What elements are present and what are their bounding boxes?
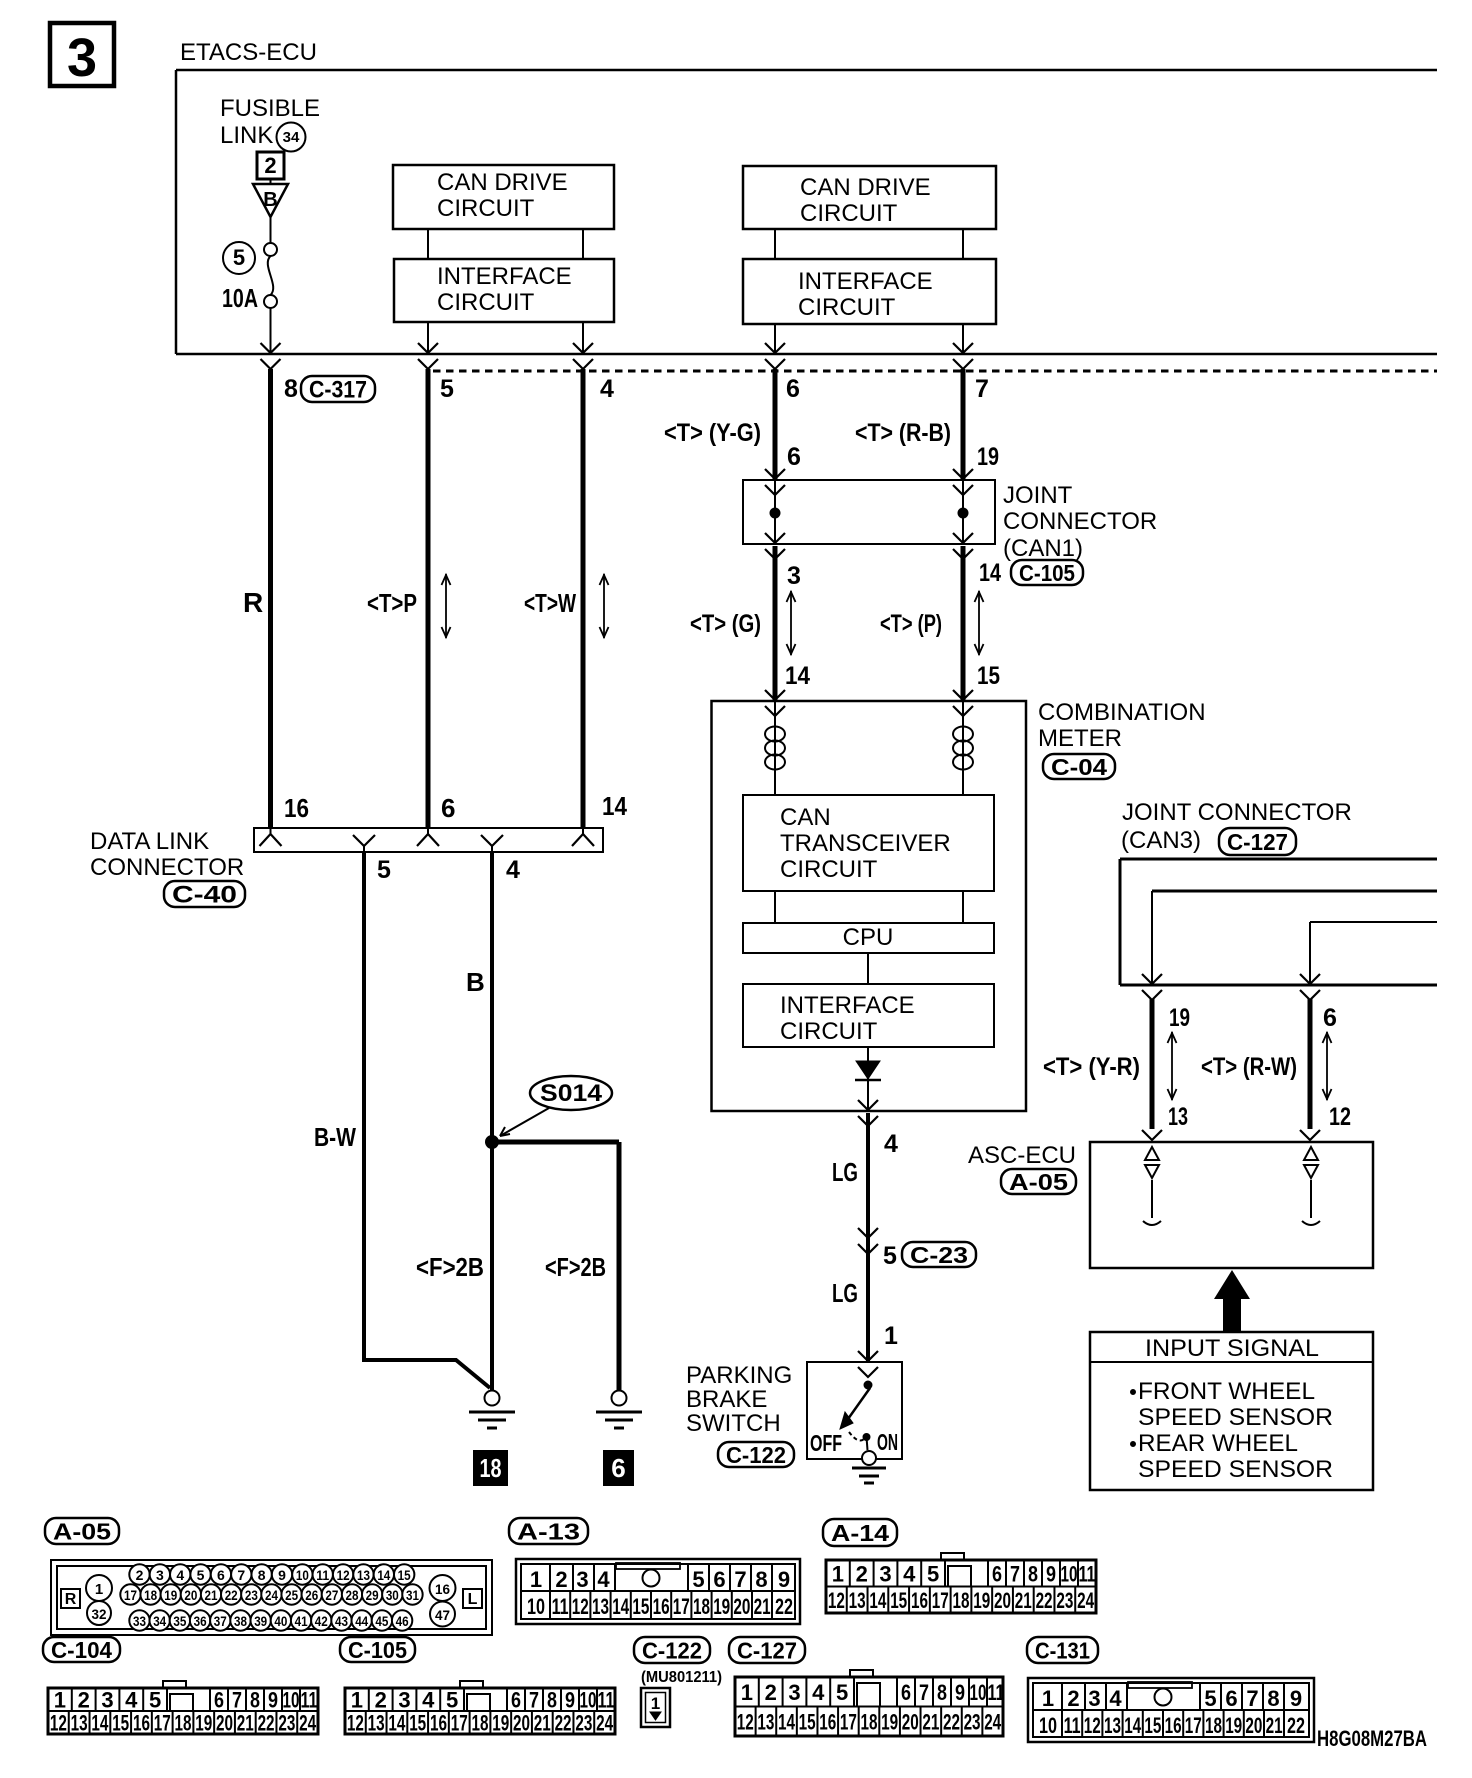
svg-text:23: 23 (575, 1711, 592, 1736)
svg-text:14: 14 (778, 1709, 796, 1734)
svg-text:9: 9 (1290, 1686, 1302, 1711)
svg-text:14: 14 (869, 1588, 887, 1613)
svg-text:20: 20 (994, 1588, 1011, 1613)
svg-text:18: 18 (144, 1587, 157, 1603)
svg-text:(CAN3): (CAN3) (1121, 827, 1201, 854)
svg-text:JOINT CONNECTOR: JOINT CONNECTOR (1122, 799, 1352, 826)
svg-text:TRANSCEIVER: TRANSCEIVER (780, 830, 951, 857)
svg-text:7: 7 (237, 1567, 245, 1583)
svg-text:15: 15 (1144, 1713, 1161, 1738)
svg-text:11: 11 (598, 1688, 615, 1713)
svg-text:CPU: CPU (843, 924, 894, 951)
svg-text:22: 22 (555, 1711, 572, 1736)
svg-text:14: 14 (612, 1594, 630, 1619)
svg-text:20: 20 (513, 1711, 530, 1736)
svg-text:3: 3 (787, 562, 801, 590)
svg-text:17: 17 (124, 1587, 137, 1603)
svg-text:20: 20 (216, 1711, 233, 1736)
svg-text:13: 13 (1104, 1713, 1121, 1738)
svg-text:11: 11 (552, 1594, 569, 1619)
svg-text:5: 5 (197, 1567, 205, 1583)
svg-text:CAN: CAN (780, 804, 831, 831)
svg-text:18: 18 (480, 1453, 502, 1483)
svg-text:23: 23 (1056, 1588, 1073, 1613)
svg-text:C-104: C-104 (51, 1637, 112, 1663)
svg-text:7: 7 (1246, 1686, 1258, 1711)
svg-text:7: 7 (1010, 1561, 1020, 1586)
svg-text:14: 14 (602, 791, 627, 821)
svg-text:20: 20 (733, 1594, 750, 1619)
svg-text:21: 21 (754, 1594, 771, 1619)
svg-text:1: 1 (351, 1688, 363, 1713)
svg-text:<F>2B: <F>2B (545, 1252, 606, 1282)
svg-text:10A: 10A (222, 283, 258, 313)
svg-text:INPUT SIGNAL: INPUT SIGNAL (1145, 1335, 1319, 1362)
svg-text:3: 3 (576, 1567, 588, 1592)
svg-text:46: 46 (396, 1613, 409, 1629)
svg-text:9: 9 (778, 1567, 790, 1592)
svg-text:12: 12 (1084, 1713, 1101, 1738)
svg-text:1: 1 (1042, 1686, 1054, 1711)
svg-text:21: 21 (205, 1587, 218, 1603)
svg-text:21: 21 (922, 1709, 939, 1734)
svg-text:7: 7 (975, 375, 989, 403)
svg-text:30: 30 (386, 1587, 399, 1603)
svg-text:10: 10 (1039, 1713, 1057, 1738)
svg-text:11: 11 (1079, 1561, 1096, 1586)
svg-text:43: 43 (335, 1613, 348, 1629)
svg-text:OFF: OFF (810, 1430, 842, 1456)
svg-text:8: 8 (1028, 1561, 1038, 1586)
svg-text:7: 7 (232, 1688, 242, 1713)
svg-text:<T> (Y-R): <T> (Y-R) (1043, 1053, 1140, 1081)
svg-text:SPEED SENSOR: SPEED SENSOR (1138, 1456, 1333, 1483)
svg-text:5: 5 (440, 375, 454, 403)
svg-text:16: 16 (819, 1709, 836, 1734)
svg-text:4: 4 (903, 1561, 916, 1586)
svg-text:2: 2 (78, 1688, 90, 1713)
svg-text:C-105: C-105 (1019, 560, 1075, 586)
svg-text:2: 2 (136, 1567, 144, 1583)
svg-text:18: 18 (693, 1594, 710, 1619)
svg-text:C-04: C-04 (1051, 754, 1107, 780)
svg-text:6: 6 (217, 1567, 225, 1583)
svg-text:19: 19 (713, 1594, 730, 1619)
svg-text:6: 6 (1323, 1004, 1337, 1032)
svg-text:22: 22 (258, 1711, 275, 1736)
svg-text:6: 6 (511, 1688, 521, 1713)
svg-text:2: 2 (264, 153, 276, 178)
svg-text:CONNECTOR: CONNECTOR (1003, 508, 1157, 535)
svg-text:16: 16 (430, 1711, 447, 1736)
svg-text:JOINT: JOINT (1003, 482, 1073, 509)
svg-text:4: 4 (422, 1688, 435, 1713)
svg-text:10: 10 (1061, 1561, 1078, 1586)
svg-text:14: 14 (388, 1711, 406, 1736)
svg-text:CAN DRIVE: CAN DRIVE (800, 174, 931, 201)
svg-text:R: R (243, 587, 263, 618)
svg-text:35: 35 (173, 1613, 186, 1629)
svg-text:INTERFACE: INTERFACE (780, 992, 915, 1019)
svg-text:C-127: C-127 (1227, 829, 1288, 855)
svg-text:<T>P: <T>P (367, 588, 417, 618)
svg-text:17: 17 (673, 1594, 690, 1619)
svg-text:C-122: C-122 (642, 1637, 702, 1663)
svg-text:<T> (Y-G): <T> (Y-G) (664, 419, 761, 447)
svg-text:2: 2 (856, 1561, 868, 1586)
svg-text:1: 1 (530, 1567, 542, 1592)
svg-text:29: 29 (366, 1587, 379, 1603)
svg-text:B: B (263, 189, 277, 211)
svg-text:12: 12 (50, 1711, 67, 1736)
svg-text:8: 8 (284, 375, 298, 403)
svg-text:21: 21 (1266, 1713, 1283, 1738)
svg-text:47: 47 (435, 1607, 450, 1623)
svg-text:1: 1 (884, 1322, 898, 1350)
svg-text:C-23: C-23 (910, 1242, 968, 1268)
svg-text:34: 34 (283, 129, 300, 146)
svg-text:9: 9 (278, 1567, 286, 1583)
svg-text:15: 15 (890, 1588, 907, 1613)
svg-text:16: 16 (435, 1581, 450, 1597)
svg-text:28: 28 (346, 1587, 359, 1603)
svg-text:5: 5 (149, 1688, 161, 1713)
svg-text:6: 6 (441, 793, 455, 823)
svg-text:14: 14 (979, 559, 1001, 587)
svg-text:8: 8 (547, 1688, 557, 1713)
svg-text:4: 4 (597, 1567, 610, 1592)
svg-text:LG: LG (832, 1278, 858, 1308)
svg-text:INTERFACE: INTERFACE (798, 268, 933, 295)
svg-text:13: 13 (592, 1594, 609, 1619)
svg-text:6: 6 (1225, 1686, 1237, 1711)
svg-text:22: 22 (225, 1587, 238, 1603)
svg-text:10: 10 (283, 1688, 300, 1713)
svg-text:16: 16 (653, 1594, 670, 1619)
svg-text:6: 6 (214, 1688, 224, 1713)
svg-text:14: 14 (91, 1711, 109, 1736)
svg-text:22: 22 (1287, 1713, 1305, 1738)
svg-text:LG: LG (832, 1157, 858, 1187)
svg-text:11: 11 (316, 1567, 329, 1583)
svg-text:CONNECTOR: CONNECTOR (90, 854, 244, 881)
svg-text:<T> (P): <T> (P) (880, 610, 942, 638)
svg-text:15: 15 (977, 662, 1000, 690)
svg-text:H8G08M27BA: H8G08M27BA (1317, 1726, 1427, 1751)
svg-text:21: 21 (534, 1711, 551, 1736)
svg-text:31: 31 (406, 1587, 419, 1603)
svg-text:5: 5 (377, 856, 391, 884)
svg-text:12: 12 (1329, 1103, 1351, 1131)
svg-text:44: 44 (355, 1613, 368, 1629)
svg-text:41: 41 (295, 1613, 308, 1629)
svg-text:19: 19 (977, 443, 999, 471)
svg-text:C-127: C-127 (737, 1637, 797, 1663)
svg-text:21: 21 (1015, 1588, 1032, 1613)
svg-text:7: 7 (734, 1567, 746, 1592)
svg-text:CIRCUIT: CIRCUIT (798, 294, 896, 321)
svg-text:5: 5 (233, 245, 245, 270)
svg-text:B: B (466, 967, 485, 997)
svg-text:17: 17 (154, 1711, 171, 1736)
svg-text:12: 12 (347, 1711, 364, 1736)
svg-text:2: 2 (1067, 1686, 1079, 1711)
svg-text:FRONT WHEEL: FRONT WHEEL (1138, 1378, 1315, 1405)
svg-text:1: 1 (95, 1581, 103, 1598)
svg-text:6: 6 (611, 1453, 625, 1483)
svg-text:4: 4 (600, 375, 614, 403)
svg-text:CAN DRIVE: CAN DRIVE (437, 169, 568, 196)
svg-text:8: 8 (937, 1680, 947, 1705)
svg-text:14: 14 (377, 1567, 390, 1583)
svg-text:13: 13 (357, 1567, 370, 1583)
svg-text:S014: S014 (540, 1080, 603, 1107)
svg-text:7: 7 (529, 1688, 539, 1713)
svg-text:CIRCUIT: CIRCUIT (780, 1018, 878, 1045)
svg-text:19: 19 (492, 1711, 509, 1736)
svg-text:CIRCUIT: CIRCUIT (437, 195, 535, 222)
svg-text:17: 17 (840, 1709, 857, 1734)
svg-text:23: 23 (278, 1711, 295, 1736)
svg-text:17: 17 (451, 1711, 468, 1736)
svg-text:REAR WHEEL: REAR WHEEL (1138, 1430, 1298, 1457)
svg-text:2: 2 (375, 1688, 387, 1713)
svg-text:20: 20 (1245, 1713, 1262, 1738)
svg-text:<T>W: <T>W (524, 588, 576, 618)
svg-text:2: 2 (555, 1567, 567, 1592)
svg-text:10: 10 (580, 1688, 597, 1713)
svg-text:17: 17 (932, 1588, 949, 1613)
svg-text:COMBINATION: COMBINATION (1038, 699, 1206, 726)
svg-text:FUSIBLE: FUSIBLE (220, 95, 320, 122)
svg-text:DATA LINK: DATA LINK (90, 828, 209, 855)
svg-text:SWITCH: SWITCH (686, 1410, 781, 1437)
svg-text:24: 24 (265, 1587, 278, 1603)
svg-text:19: 19 (195, 1711, 212, 1736)
svg-text:6: 6 (787, 443, 801, 471)
svg-text:23: 23 (245, 1587, 258, 1603)
svg-text:3: 3 (156, 1567, 164, 1583)
svg-text:22: 22 (1036, 1588, 1053, 1613)
svg-text:A-05: A-05 (1009, 1169, 1068, 1195)
svg-text:9: 9 (565, 1688, 575, 1713)
svg-text:24: 24 (984, 1709, 1002, 1734)
svg-text:1: 1 (832, 1561, 844, 1586)
svg-text:20: 20 (902, 1709, 919, 1734)
svg-text:1: 1 (54, 1688, 66, 1713)
svg-text:18: 18 (472, 1711, 489, 1736)
svg-text:5: 5 (446, 1688, 458, 1713)
svg-text:24: 24 (1077, 1588, 1095, 1613)
svg-text:10: 10 (970, 1680, 987, 1705)
svg-text:36: 36 (194, 1613, 207, 1629)
svg-text:34: 34 (153, 1613, 166, 1629)
svg-text:19: 19 (164, 1587, 177, 1603)
svg-text:25: 25 (285, 1587, 298, 1603)
svg-text:4: 4 (812, 1680, 825, 1705)
svg-text:PARKING: PARKING (686, 1362, 792, 1389)
svg-text:6: 6 (901, 1680, 911, 1705)
svg-text:19: 19 (1225, 1713, 1242, 1738)
svg-text:5: 5 (836, 1680, 848, 1705)
svg-text:13: 13 (849, 1588, 866, 1613)
svg-text:18: 18 (953, 1588, 970, 1613)
svg-text:ON: ON (877, 1429, 898, 1455)
svg-text:4: 4 (1109, 1686, 1122, 1711)
svg-text:12: 12 (337, 1567, 350, 1583)
svg-text:8: 8 (250, 1688, 260, 1713)
svg-text:(MU801211): (MU801211) (641, 1669, 722, 1686)
svg-text:B-W: B-W (314, 1122, 356, 1152)
svg-text:12: 12 (828, 1588, 845, 1613)
svg-text:26: 26 (305, 1587, 318, 1603)
svg-text:38: 38 (234, 1613, 247, 1629)
svg-text:42: 42 (315, 1613, 328, 1629)
svg-text:SPEED SENSOR: SPEED SENSOR (1138, 1404, 1333, 1431)
svg-text:16: 16 (911, 1588, 928, 1613)
svg-text:5: 5 (927, 1561, 939, 1586)
svg-text:ETACS-ECU: ETACS-ECU (180, 39, 317, 66)
svg-text:19: 19 (881, 1709, 898, 1734)
svg-text:45: 45 (375, 1613, 388, 1629)
svg-text:(CAN1): (CAN1) (1003, 535, 1083, 562)
svg-text:INTERFACE: INTERFACE (437, 263, 572, 290)
svg-text:11: 11 (988, 1680, 1005, 1705)
svg-text:A-13: A-13 (517, 1518, 580, 1544)
svg-text:C-131: C-131 (1035, 1637, 1090, 1663)
svg-text:CIRCUIT: CIRCUIT (437, 289, 535, 316)
svg-text:16: 16 (284, 793, 309, 823)
svg-text:7: 7 (919, 1680, 929, 1705)
svg-text:3: 3 (788, 1680, 800, 1705)
svg-text:8: 8 (755, 1567, 767, 1592)
svg-text:33: 33 (133, 1613, 146, 1629)
svg-text:8: 8 (1267, 1686, 1279, 1711)
svg-text:C-122: C-122 (726, 1442, 786, 1468)
svg-text:37: 37 (214, 1613, 227, 1629)
svg-text:CIRCUIT: CIRCUIT (800, 200, 898, 227)
svg-text:19: 19 (1169, 1004, 1190, 1032)
svg-text:6: 6 (786, 375, 800, 403)
svg-text:16: 16 (133, 1711, 150, 1736)
svg-text:3: 3 (1088, 1686, 1100, 1711)
svg-text:4: 4 (506, 856, 520, 884)
svg-text:14: 14 (1124, 1713, 1142, 1738)
svg-text:18: 18 (175, 1711, 192, 1736)
svg-text:L: L (468, 1591, 478, 1608)
svg-text:19: 19 (973, 1588, 990, 1613)
svg-text:3: 3 (67, 28, 97, 88)
svg-text:5: 5 (692, 1567, 704, 1592)
svg-text:METER: METER (1038, 725, 1122, 752)
svg-text:1: 1 (741, 1680, 753, 1705)
svg-text:1: 1 (651, 1694, 660, 1713)
svg-text:<T> (R-W): <T> (R-W) (1201, 1053, 1297, 1081)
svg-text:15: 15 (112, 1711, 129, 1736)
svg-text:13: 13 (368, 1711, 385, 1736)
svg-text:24: 24 (596, 1711, 614, 1736)
svg-text:13: 13 (757, 1709, 774, 1734)
svg-text:23: 23 (964, 1709, 981, 1734)
svg-text:22: 22 (943, 1709, 960, 1734)
svg-text:<T> (R-B): <T> (R-B) (855, 419, 951, 447)
svg-text:21: 21 (237, 1711, 254, 1736)
svg-text:BRAKE: BRAKE (686, 1386, 767, 1413)
svg-text:4: 4 (176, 1567, 184, 1583)
svg-text:<T> (G): <T> (G) (690, 610, 761, 638)
svg-text:22: 22 (775, 1594, 793, 1619)
svg-text:9: 9 (268, 1688, 278, 1713)
svg-text:18: 18 (861, 1709, 878, 1734)
svg-text:40: 40 (274, 1613, 287, 1629)
svg-text:CIRCUIT: CIRCUIT (780, 856, 878, 883)
svg-text:15: 15 (632, 1594, 649, 1619)
svg-text:3: 3 (879, 1561, 891, 1586)
svg-text:11: 11 (301, 1688, 318, 1713)
svg-text:3: 3 (101, 1688, 113, 1713)
svg-text:3: 3 (398, 1688, 410, 1713)
svg-text:5: 5 (883, 1242, 897, 1270)
svg-text:15: 15 (799, 1709, 816, 1734)
svg-text:A-05: A-05 (53, 1518, 111, 1544)
svg-text:2: 2 (765, 1680, 777, 1705)
svg-text:10: 10 (527, 1594, 545, 1619)
svg-text:4: 4 (884, 1130, 898, 1158)
svg-text:13: 13 (71, 1711, 88, 1736)
svg-text:C-40: C-40 (172, 882, 237, 909)
svg-text:R: R (65, 1591, 77, 1608)
svg-text:C-105: C-105 (348, 1637, 407, 1663)
svg-text:27: 27 (325, 1587, 338, 1603)
svg-text:4: 4 (125, 1688, 138, 1713)
svg-text:A-14: A-14 (831, 1520, 889, 1546)
svg-text:5: 5 (1204, 1686, 1216, 1711)
svg-text:39: 39 (254, 1613, 267, 1629)
svg-text:10: 10 (296, 1567, 309, 1583)
svg-text:12: 12 (572, 1594, 589, 1619)
svg-text:LINK: LINK (220, 122, 273, 149)
svg-text:20: 20 (184, 1587, 197, 1603)
svg-text:12: 12 (737, 1709, 754, 1734)
svg-text:18: 18 (1205, 1713, 1222, 1738)
svg-text:13: 13 (1168, 1103, 1188, 1131)
svg-text:ASC-ECU: ASC-ECU (968, 1142, 1076, 1169)
svg-text:15: 15 (409, 1711, 426, 1736)
svg-text:16: 16 (1165, 1713, 1182, 1738)
svg-text:24: 24 (299, 1711, 317, 1736)
svg-text:9: 9 (955, 1680, 965, 1705)
svg-text:11: 11 (1064, 1713, 1081, 1738)
svg-text:6: 6 (992, 1561, 1002, 1586)
svg-text:15: 15 (398, 1567, 411, 1583)
svg-text:14: 14 (785, 662, 810, 690)
svg-text:6: 6 (713, 1567, 725, 1592)
svg-text:C-317: C-317 (309, 377, 367, 404)
svg-text:8: 8 (258, 1567, 266, 1583)
svg-text:9: 9 (1046, 1561, 1056, 1586)
svg-text:32: 32 (92, 1606, 107, 1622)
svg-text:<F>2B: <F>2B (416, 1252, 484, 1282)
svg-text:17: 17 (1185, 1713, 1202, 1738)
